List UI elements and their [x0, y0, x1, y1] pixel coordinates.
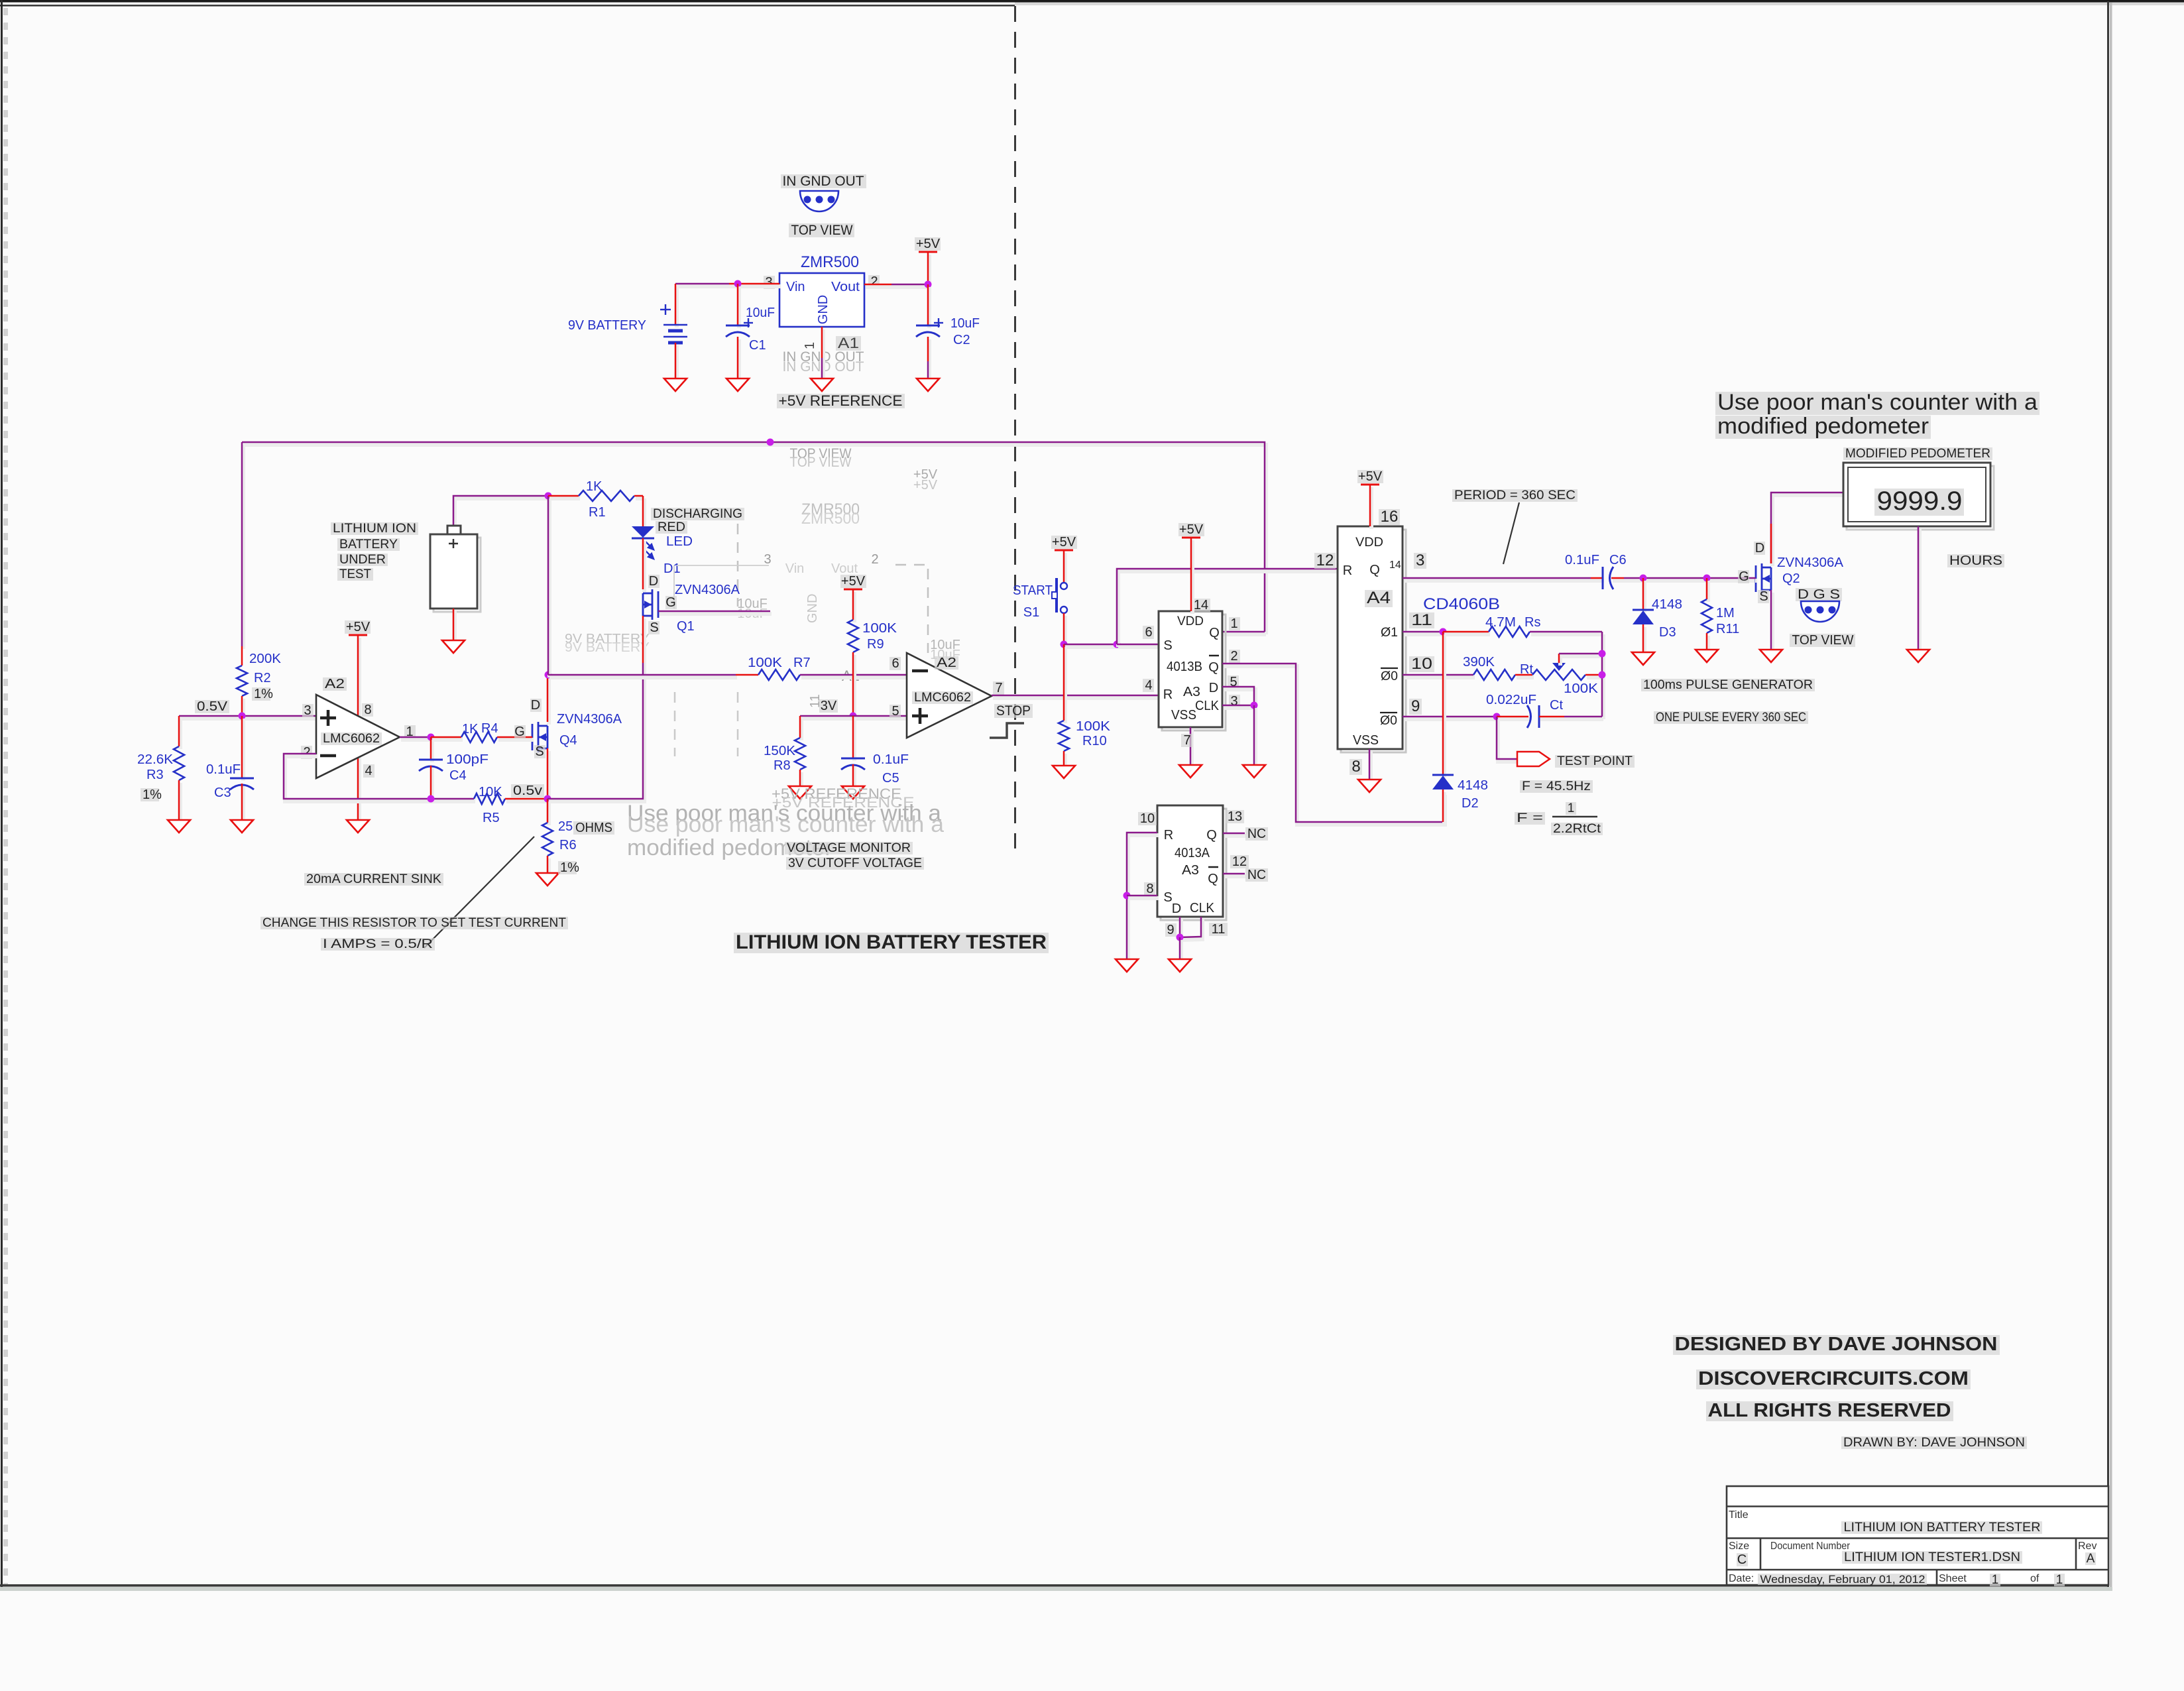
svg-text:+5V: +5V	[1179, 522, 1204, 537]
svg-text:OHMS: OHMS	[575, 821, 612, 835]
test point	[1498, 719, 1519, 762]
svg-text:22.6K: 22.6K	[137, 752, 174, 767]
ground (battery under test)	[442, 640, 465, 653]
wire A2 out	[401, 738, 432, 742]
modified pedometer box	[1847, 466, 1994, 530]
resistor R8	[795, 738, 805, 770]
pin 3	[1229, 695, 1240, 708]
svg-text:+5V: +5V	[346, 620, 371, 634]
svg-text:I AMPS = 0.5/R: I AMPS = 0.5/R	[323, 937, 433, 951]
print boundary dashed line	[1014, 6, 1016, 848]
svg-text:200K: 200K	[249, 652, 282, 666]
svg-text:+5V: +5V	[1358, 469, 1383, 484]
resistor R2	[237, 666, 247, 696]
pin 13	[1226, 810, 1244, 823]
pin 10	[1138, 812, 1157, 825]
svg-text:100K: 100K	[1076, 719, 1111, 734]
svg-text:100pF: 100pF	[446, 752, 489, 767]
STOP output wire to 4013B R	[993, 696, 1160, 700]
svg-text:S: S	[1759, 589, 1768, 604]
svg-text:0.1uF: 0.1uF	[206, 762, 241, 777]
wire battery to Vin	[677, 284, 730, 288]
pin10 net with Rt	[1404, 675, 1475, 679]
svg-text:ZVN4306A: ZVN4306A	[675, 583, 740, 597]
capacitor C5 0.1uF	[852, 719, 856, 761]
svg-text:R: R	[1163, 687, 1173, 702]
IC A3 4013A box	[1161, 809, 1226, 920]
gray band top-right	[1015, 3, 2184, 6]
resistor R5	[474, 793, 505, 804]
svg-text:MODIFIED PEDOMETER: MODIFIED PEDOMETER	[1845, 447, 1990, 461]
svg-text:S: S	[1163, 890, 1172, 905]
svg-text:14: 14	[1194, 598, 1208, 612]
svg-text:2: 2	[1230, 649, 1237, 664]
feedback vertical	[1601, 634, 1605, 719]
svg-text:DESIGNED BY DAVE JOHNSON: DESIGNED BY DAVE JOHNSON	[1675, 1334, 1998, 1355]
svg-text:R: R	[1164, 828, 1173, 843]
pin 8	[362, 703, 373, 717]
svg-text:LITHIUM ION TESTER1.DSN: LITHIUM ION TESTER1.DSN	[1844, 1550, 2020, 1564]
svg-text:4148: 4148	[1652, 597, 1682, 612]
wire 0.5V node	[180, 717, 317, 721]
resistor R3	[174, 746, 184, 780]
svg-text:20mA CURRENT SINK: 20mA CURRENT SINK	[306, 872, 441, 886]
svg-text:Q: Q	[1208, 660, 1219, 675]
svg-text:R11: R11	[1716, 622, 1739, 636]
svg-text:8: 8	[364, 703, 371, 717]
ground (Q2 source)	[1760, 650, 1782, 662]
svg-text:ZMR500: ZMR500	[801, 253, 859, 271]
svg-text:8: 8	[1146, 882, 1153, 896]
page border top line (left of print boundary)	[0, 5, 1015, 7]
svg-text:S1: S1	[1023, 605, 1039, 620]
svg-text:Vin: Vin	[785, 561, 805, 576]
pin 5	[890, 705, 901, 718]
svg-text:modified pedometer: modified pedometer	[1717, 414, 1929, 439]
svg-text:1: 1	[1992, 1573, 1999, 1587]
+5V (R9)	[844, 589, 862, 591]
resistor R9	[848, 620, 858, 652]
ghost dashed lines	[737, 524, 739, 607]
NC stubs	[1224, 834, 1246, 838]
pin 3	[302, 704, 314, 717]
svg-text:LITHIUM ION: LITHIUM ION	[333, 522, 416, 536]
wire Q2 source	[1770, 593, 1774, 652]
document number	[1842, 1551, 2022, 1564]
pin 14	[1192, 599, 1210, 612]
title block	[1727, 1486, 2108, 1585]
junction D/CLK	[1251, 702, 1258, 709]
svg-text:C3: C3	[214, 786, 231, 800]
svg-text:0.5v: 0.5v	[513, 784, 542, 798]
resistor Rt 390K	[1473, 670, 1515, 680]
credits	[1673, 1335, 2000, 1355]
svg-text:VOLTAGE MONITOR: VOLTAGE MONITOR	[787, 841, 911, 855]
svg-text:10K: 10K	[479, 785, 502, 799]
pin 11	[1209, 923, 1228, 936]
svg-text:LMC6062: LMC6062	[914, 691, 971, 705]
svg-text:0.1uF: 0.1uF	[873, 752, 909, 767]
svg-text:150K: 150K	[764, 744, 796, 758]
svg-text:UNDER: UNDER	[339, 553, 386, 567]
capacitor C3 0.1uF	[241, 719, 245, 781]
svg-text:Q1: Q1	[677, 619, 695, 634]
svg-text:8: 8	[1351, 758, 1360, 776]
op-amp A2 (comparator) LMC6062	[907, 653, 992, 738]
pin 10	[1409, 656, 1434, 672]
resistor R8 150K	[799, 719, 803, 740]
MOSFET Q2	[1756, 563, 1771, 594]
pin9 net with Ct	[1404, 717, 1498, 721]
caption current sink	[304, 873, 443, 886]
svg-text:9V BATTERY: 9V BATTERY	[568, 318, 646, 333]
wire Q14 out	[1404, 579, 1592, 583]
svg-text:ZVN4306A: ZVN4306A	[1777, 555, 1844, 570]
svg-text:100K: 100K	[748, 656, 783, 670]
svg-text:Rs: Rs	[1524, 615, 1540, 630]
wire S net to A4 pin12 R	[1118, 571, 1339, 647]
svg-text:ZVN4306A: ZVN4306A	[557, 712, 622, 727]
date	[1758, 1574, 1927, 1585]
svg-text:Wednesday, February 01, 2012: Wednesday, February 01, 2012	[1760, 1573, 1925, 1586]
svg-text:TOP VIEW: TOP VIEW	[790, 455, 852, 470]
svg-text:3: 3	[764, 552, 771, 567]
junction rail/Q1 gate	[767, 439, 774, 446]
svg-text:1%: 1%	[143, 787, 162, 802]
wire Qbar to D2	[1224, 666, 1445, 825]
svg-text:D G S: D G S	[1798, 587, 1840, 602]
pin 9	[1165, 923, 1177, 937]
wire R7 to pin6	[801, 675, 908, 679]
label TOP VIEW	[789, 223, 854, 237]
svg-text:1K: 1K	[586, 479, 603, 494]
svg-text:9: 9	[1411, 697, 1420, 715]
capacitor C2	[927, 287, 931, 328]
junction pot end	[1599, 671, 1606, 679]
svg-text:LITHIUM ION BATTERY TESTER: LITHIUM ION BATTERY TESTER	[1844, 1521, 2041, 1535]
junction R11	[1703, 575, 1711, 582]
captions voltage monitor	[785, 842, 913, 854]
svg-text:D: D	[1172, 902, 1181, 916]
svg-text:9V BATTERY: 9V BATTERY	[565, 640, 650, 655]
svg-text:Size: Size	[1729, 1541, 1749, 1552]
svg-text:VSS: VSS	[1171, 708, 1196, 723]
svg-text:START: START	[1013, 583, 1053, 598]
svg-text:Q4: Q4	[559, 733, 577, 748]
designator A2 (comparator)	[935, 656, 958, 670]
svg-text:0.022uF: 0.022uF	[1486, 693, 1536, 707]
svg-text:Q: Q	[1208, 872, 1218, 886]
pin 8	[1350, 759, 1362, 775]
pin 1	[404, 725, 416, 738]
svg-text:C2: C2	[953, 333, 970, 347]
junction R2/C3/0.5V	[239, 713, 246, 720]
svg-text:TOP VIEW: TOP VIEW	[791, 223, 853, 238]
svg-text:Vout: Vout	[831, 280, 860, 294]
svg-text:VDD: VDD	[1177, 614, 1204, 628]
resistor R4 1K	[461, 732, 497, 742]
svg-text:C5: C5	[882, 771, 899, 786]
wire D pin9	[1179, 919, 1183, 940]
svg-text:D: D	[1209, 681, 1218, 695]
resistor R1	[579, 491, 634, 501]
junction S1/R10	[1061, 641, 1068, 648]
svg-text:D2: D2	[1462, 796, 1479, 811]
wire S	[1128, 896, 1159, 900]
wire Vout to +5V node	[866, 285, 893, 289]
svg-text:DRAWN BY: DAVE JOHNSON: DRAWN BY: DAVE JOHNSON	[1843, 1436, 2025, 1450]
caption +5V REFERENCE	[777, 394, 905, 408]
battery under test symbol	[433, 538, 481, 612]
resistor R6	[542, 823, 553, 856]
svg-text:1: 1	[803, 342, 817, 349]
svg-text:Vin: Vin	[786, 280, 805, 294]
svg-text:4.7M: 4.7M	[1485, 615, 1516, 630]
svg-text:S: S	[535, 744, 544, 759]
junction D/CLK lower	[1177, 934, 1184, 941]
pin 4	[1143, 679, 1154, 692]
wire to 4013B S pin	[1118, 645, 1160, 649]
svg-text:of: of	[2030, 1573, 2040, 1584]
svg-text:VDD: VDD	[1355, 536, 1383, 550]
wire 3V node to pin5	[801, 717, 908, 721]
junction source/R5/R6	[544, 795, 551, 803]
caption 100ms PULSE GENERATOR	[1641, 679, 1815, 691]
ground (C5)	[842, 786, 864, 799]
+5V rail	[919, 251, 937, 253]
regulator GND pin wire	[821, 329, 825, 361]
pin 5	[1228, 675, 1239, 689]
svg-text:R5: R5	[483, 811, 500, 825]
svg-text:Q: Q	[1206, 828, 1217, 843]
+5V (S1)	[1055, 550, 1073, 552]
svg-text:A: A	[2087, 1552, 2095, 1566]
svg-text:C: C	[1737, 1552, 1747, 1567]
title LITHIUM ION BATTERY TESTER	[734, 933, 1049, 953]
TO-92 top view (Q2)	[1796, 588, 1842, 601]
svg-text:4013B: 4013B	[1167, 660, 1202, 674]
svg-text:R7: R7	[793, 656, 811, 670]
ground (D/CLK 4013A)	[1169, 959, 1191, 972]
svg-text:LMC6062: LMC6062	[323, 732, 380, 746]
svg-text:CLK: CLK	[1195, 699, 1220, 713]
svg-text:ZMR500: ZMR500	[801, 510, 860, 528]
svg-text:Q2: Q2	[1782, 571, 1800, 586]
resistor R7 100K	[758, 670, 800, 680]
svg-text:Q: Q	[1369, 563, 1380, 577]
regulator A1 box ZMR500	[779, 273, 864, 327]
svg-text:A3: A3	[1183, 685, 1200, 699]
svg-text:1%: 1%	[560, 860, 579, 875]
svg-text:4013A: 4013A	[1175, 846, 1210, 860]
resistor Rs 4.7M	[1489, 626, 1530, 637]
svg-text:1: 1	[2056, 1573, 2063, 1587]
svg-text:G: G	[665, 595, 676, 610]
svg-text:100ms PULSE GENERATOR: 100ms PULSE GENERATOR	[1643, 678, 1813, 692]
pin 3	[1414, 553, 1426, 569]
wire R to ground	[1128, 835, 1159, 962]
ground (D/CLK)	[1243, 765, 1265, 778]
svg-text:Title: Title	[1729, 1509, 1749, 1521]
svg-text:A2: A2	[325, 677, 345, 691]
pin 2	[1229, 650, 1240, 663]
svg-text:10: 10	[1140, 811, 1155, 826]
wire CLK pin11	[1181, 919, 1202, 940]
svg-text:R3: R3	[146, 768, 164, 782]
diode D2 4148	[1432, 774, 1454, 776]
9V battery symbol	[675, 286, 679, 327]
callout line to R6	[424, 837, 534, 948]
svg-text:3: 3	[1416, 552, 1424, 569]
display 9999.9	[1874, 489, 1964, 516]
svg-text:C4: C4	[449, 768, 467, 783]
MOSFET Q1	[643, 589, 658, 620]
pin 9	[1409, 699, 1422, 715]
potentiometer 100K	[1532, 670, 1585, 680]
svg-text:25: 25	[558, 819, 573, 834]
svg-text:R6: R6	[559, 838, 577, 852]
pin 8	[1144, 882, 1155, 896]
svg-text:BATTERY: BATTERY	[339, 538, 398, 552]
ground (VSS A3)	[1179, 765, 1202, 778]
svg-text:CLK: CLK	[1190, 901, 1215, 915]
label 3V	[819, 699, 838, 713]
svg-text:14: 14	[1389, 559, 1401, 571]
wire 4013B pin1 to rail	[1224, 632, 1266, 636]
svg-text:C1: C1	[749, 338, 766, 353]
svg-text:GND: GND	[816, 295, 831, 324]
svg-text:1K: 1K	[462, 722, 479, 736]
svg-text:12: 12	[1316, 552, 1334, 569]
svg-text:9999.9: 9999.9	[1877, 487, 1963, 516]
wire LED to Q1 drain	[642, 541, 646, 592]
pin 12	[1230, 855, 1249, 868]
ground (R/S 4013A)	[1116, 959, 1138, 972]
junction battery net / Q4 drain / R7	[545, 671, 552, 679]
ground (9V battery)	[664, 379, 687, 391]
svg-text:TEST: TEST	[339, 567, 371, 581]
svg-text:G: G	[1739, 569, 1749, 584]
junction pin11/D2	[1440, 628, 1447, 636]
svg-text:PERIOD = 360 SEC: PERIOD = 360 SEC	[1454, 489, 1576, 502]
svg-text:RED: RED	[658, 520, 685, 534]
svg-text:Use poor man's counter with a: Use poor man's counter with a	[627, 812, 944, 837]
junction C6/D3	[1640, 575, 1647, 582]
svg-text:4: 4	[1145, 678, 1152, 693]
ground (pedometer)	[1907, 650, 1929, 662]
svg-text:GND: GND	[805, 594, 820, 623]
label HOURS	[1947, 554, 2004, 567]
note PERIOD = 360 SEC	[1452, 489, 1578, 502]
svg-text:13: 13	[1228, 809, 1242, 824]
wire rail to R2	[241, 445, 245, 649]
svg-text:0.1uF: 0.1uF	[1565, 553, 1599, 567]
svg-text:7: 7	[1183, 733, 1190, 748]
svg-text:A2: A2	[937, 656, 956, 670]
label TEST POINT	[1555, 755, 1635, 768]
pedometer ground wire	[1918, 529, 1922, 652]
svg-text:+5V REFERENCE: +5V REFERENCE	[779, 392, 903, 409]
svg-text:3V CUTOFF VOLTAGE: 3V CUTOFF VOLTAGE	[788, 856, 922, 870]
svg-text:Document Number: Document Number	[1770, 1541, 1851, 1552]
pin 7	[1181, 734, 1192, 747]
capacitor C4 100pF	[430, 740, 434, 762]
svg-text:2: 2	[871, 552, 878, 567]
svg-text:LITHIUM ION BATTERY TESTER: LITHIUM ION BATTERY TESTER	[736, 931, 1047, 953]
+5V at op-amp A2	[349, 634, 367, 636]
svg-text:11: 11	[1411, 611, 1432, 629]
resistor R3 22.6K	[178, 719, 182, 749]
wire Q4 source	[547, 751, 551, 801]
svg-text:3V: 3V	[821, 699, 837, 713]
bottom page border	[0, 1584, 2109, 1587]
heading use poor mans counter	[1715, 392, 2040, 415]
svg-text:1: 1	[1568, 801, 1575, 815]
frequency formulas	[1520, 780, 1593, 793]
svg-text:TOP VIEW: TOP VIEW	[1792, 633, 1854, 648]
wire Q1 gate to rail	[660, 612, 772, 616]
svg-text:+5V: +5V	[1052, 535, 1076, 550]
pin 6	[890, 657, 901, 670]
svg-text:Use poor man's counter with a: Use poor man's counter with a	[1717, 390, 2038, 415]
ground (A1 GND)	[811, 379, 833, 391]
ground (R6)	[536, 873, 559, 886]
svg-text:F = 45.5Hz: F = 45.5Hz	[1522, 780, 1591, 793]
svg-text:10uF: 10uF	[746, 306, 775, 320]
pin 3	[764, 276, 775, 289]
svg-text:Rt: Rt	[1520, 662, 1533, 677]
svg-text:+5V: +5V	[841, 574, 866, 589]
svg-text:1M: 1M	[1716, 606, 1735, 620]
wire Q-output rail	[243, 445, 1266, 634]
svg-text:R9: R9	[867, 637, 884, 652]
svg-text:10uF: 10uF	[950, 316, 980, 331]
svg-text:4148: 4148	[1458, 778, 1488, 793]
pin 2	[868, 275, 880, 288]
left page border	[1, 0, 3, 1588]
svg-text:ONE PULSE EVERY 360 SEC: ONE PULSE EVERY 360 SEC	[1656, 711, 1806, 725]
ground (R10)	[1053, 766, 1075, 778]
pin 2	[301, 746, 312, 759]
label 0.5V	[195, 700, 229, 713]
label 0.5v	[511, 784, 544, 797]
wire battery+ to node	[455, 498, 549, 528]
svg-text:D: D	[649, 574, 658, 589]
junction Vout/C2	[925, 281, 932, 288]
svg-text:NC: NC	[1247, 868, 1266, 882]
svg-text:R2: R2	[254, 671, 271, 685]
svg-text:+5V: +5V	[916, 237, 941, 251]
ground (R3)	[168, 820, 190, 833]
svg-text:CD4060B: CD4060B	[1423, 595, 1500, 613]
svg-text:D1: D1	[663, 561, 681, 576]
junction Vin/C1	[734, 280, 742, 288]
svg-text:F =: F =	[1517, 811, 1543, 825]
svg-text:DISCHARGING: DISCHARGING	[653, 507, 742, 521]
svg-text:1%: 1%	[254, 687, 273, 701]
svg-text:11: 11	[1212, 922, 1226, 937]
ground (C1)	[726, 379, 749, 391]
svg-text:3: 3	[304, 703, 311, 718]
wire Q1 source down	[642, 618, 646, 666]
svg-text:IN GND OUT: IN GND OUT	[783, 174, 864, 189]
svg-text:Ø1: Ø1	[1381, 626, 1398, 640]
svg-text:7: 7	[995, 681, 1002, 695]
svg-text:5: 5	[891, 704, 899, 719]
IC A3 4013B box	[1162, 614, 1226, 730]
diode D2	[1442, 634, 1446, 778]
svg-text:100K: 100K	[1564, 681, 1599, 696]
